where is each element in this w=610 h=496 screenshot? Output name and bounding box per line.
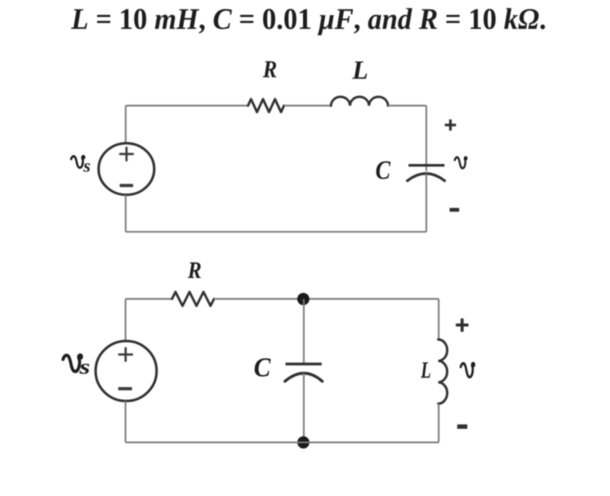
label R (top circuit) <box>263 61 276 77</box>
wire: left vertical upper (top circuit, corner to source) <box>125 106 127 144</box>
plus sign inside source (top circuit) <box>119 147 134 162</box>
plus sign inside source (bottom circuit) <box>118 347 133 362</box>
wire: left vertical lower (bottom circuit, source to corner) <box>125 401 127 442</box>
resistor R (bottom circuit) <box>172 292 214 306</box>
wire: bottom horizontal (bottom circuit) <box>126 441 439 443</box>
minus sign output (top circuit) <box>450 208 460 212</box>
capacitor C curved bottom plate (bottom circuit) <box>285 373 322 381</box>
capacitor C curved bottom plate (top circuit) <box>407 174 444 181</box>
wire: capacitor branch lower (bottom circuit) <box>303 373 305 442</box>
wire: between resistor and inductor (top circuit) <box>284 105 331 107</box>
wire: left vertical lower (top circuit, source to bottom corner) <box>125 195 127 232</box>
wire: left vertical upper (bottom circuit, corner to source) <box>125 299 127 341</box>
label C (bottom circuit) <box>255 358 271 376</box>
wire: top-left horizontal segment (corner to resistor) <box>126 105 248 107</box>
label v output (top circuit) <box>455 157 467 168</box>
wire: capacitor branch upper (bottom circuit) <box>303 299 305 363</box>
wire: bottom horizontal (top circuit) <box>126 231 427 233</box>
inductor L (bottom circuit, vertical) <box>438 340 447 404</box>
wire: right vertical lower (bottom circuit, inductor to corner) <box>438 404 440 443</box>
plus sign output (bottom circuit) <box>456 318 469 331</box>
label C (top circuit) <box>376 161 390 179</box>
capacitor C top plate (bottom circuit) <box>286 363 322 366</box>
junction node dot bottom (bottom circuit) <box>297 436 309 448</box>
minus sign inside source (top circuit) <box>120 184 133 187</box>
label v output (bottom circuit) <box>461 363 474 377</box>
voltage source circle (bottom circuit) <box>96 341 157 401</box>
capacitor C top plate (top circuit) <box>409 164 445 167</box>
voltage source circle (top circuit) <box>99 143 155 195</box>
label vs (top circuit) <box>71 156 90 172</box>
wire: top-left horizontal segment (bottom circuit, corner to resistor) <box>126 298 173 300</box>
wire: right vertical lower (top circuit, capacitor to bottom corner) <box>425 174 427 232</box>
inductor L (top circuit) <box>331 97 388 106</box>
plus sign output (top circuit) <box>445 119 456 130</box>
label L (top circuit) <box>352 62 367 79</box>
junction node dot top (bottom circuit) <box>297 293 309 305</box>
minus sign output (bottom circuit) <box>457 424 467 428</box>
wire: resistor to top-right corner (bottom circuit) <box>214 298 439 300</box>
resistor R (top circuit) <box>248 99 284 112</box>
wire: inductor to top-right corner (top circuit) <box>388 105 426 107</box>
title: L = 10 mH, C = 0.01 uF, and R = 10 kOhm <box>71 8 545 35</box>
label L (bottom circuit) <box>421 362 431 377</box>
label vs (bottom circuit) <box>63 355 89 374</box>
wire: right vertical upper (bottom circuit, corner to inductor) <box>438 299 440 340</box>
label R (bottom circuit) <box>188 262 201 278</box>
minus sign inside source (bottom circuit) <box>118 387 132 390</box>
wire: right vertical upper (top circuit, corner down to capacitor) <box>425 106 427 171</box>
